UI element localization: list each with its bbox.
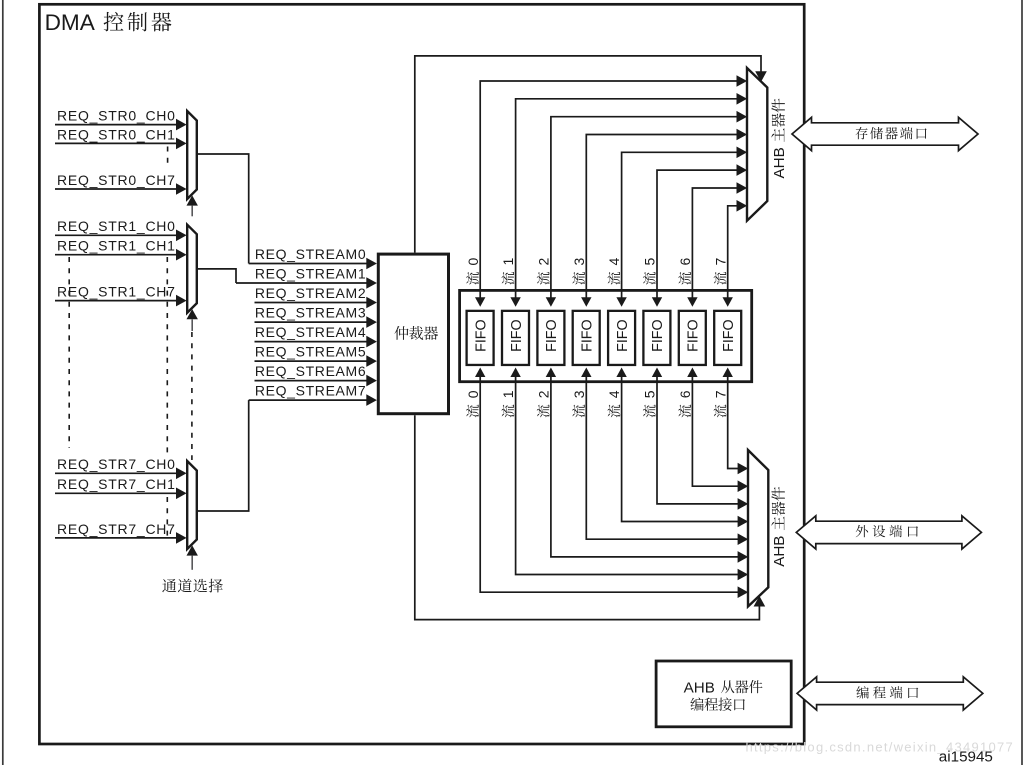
FIFO box 0: [467, 311, 494, 365]
FIFO box 5: [643, 311, 670, 365]
wire stream 2 bottom (to AHB master2): [546, 368, 749, 563]
dashed ellipsis group0: [167, 147, 169, 167]
label 通道选择: [162, 579, 223, 593]
svg-text:4: 4: [606, 390, 622, 398]
wire stream 3 bottom (to AHB master2): [581, 368, 748, 546]
label 流 0 (top): [465, 258, 481, 285]
label AHB 从器件: [684, 680, 763, 697]
svg-text:AHB: AHB: [771, 536, 788, 567]
wire stream 4 top (to AHB master1): [616, 147, 747, 307]
label 流 6 (bottom): [677, 390, 693, 417]
svg-text:ai15945: ai15945: [939, 749, 993, 765]
dashed ellipsis left (STR1..STR7): [68, 257, 70, 448]
wire arbiter to AHB master1: [415, 56, 767, 253]
svg-text:AHB: AHB: [684, 680, 715, 697]
watermark: [746, 739, 1015, 754]
wire stream 3 top (to AHB master1): [581, 129, 747, 307]
wire REQ_STR7_CH0: [55, 456, 187, 479]
FIFO box 4: [608, 311, 635, 365]
svg-text:REQ_STREAM1: REQ_STREAM1: [255, 265, 366, 281]
FIFO box 7: [714, 311, 741, 365]
wire stream 7 top (to AHB master1): [723, 200, 748, 307]
wire mux M1 output: [197, 269, 236, 283]
wire mux M7 output: [197, 400, 249, 511]
label 流 7 (top): [712, 258, 728, 285]
wire REQ_STREAM1: [236, 265, 377, 288]
port arrow 外设端口 (peripheral port): [796, 516, 981, 549]
svg-text:3: 3: [571, 258, 587, 266]
label 流 3 (bottom): [571, 390, 587, 417]
mux M0 (stream0 channel mux): [187, 111, 197, 199]
svg-text:5: 5: [642, 390, 658, 398]
title: DMA 控制器: [45, 10, 172, 35]
label 流 5 (top): [642, 258, 658, 285]
svg-text:FIFO: FIFO: [544, 319, 560, 352]
wire REQ_STR0_CH7: [55, 172, 187, 195]
wire REQ_STREAM2: [255, 285, 377, 308]
label 流 2 (bottom): [536, 390, 552, 417]
wire stream 0 top (to AHB master1): [475, 75, 747, 307]
wire stream 2 top (to AHB master1): [546, 111, 747, 307]
wire stream 7 bottom (to AHB master2): [723, 368, 749, 475]
svg-text:REQ_STREAM6: REQ_STREAM6: [255, 363, 366, 379]
label AHB 主器件 (master2): [771, 487, 788, 567]
svg-text:DMA: DMA: [45, 10, 96, 35]
label 流 2 (top): [536, 258, 552, 285]
select arrow M0: [187, 195, 198, 216]
outer box: DMA controller: [39, 4, 804, 744]
label AHB 主器件 (master1): [771, 99, 788, 179]
wire REQ_STR1_CH0: [55, 218, 187, 241]
svg-text:6: 6: [677, 258, 693, 266]
port arrow 存储器端口 (memory port): [792, 117, 978, 150]
FIFO box 1: [502, 311, 529, 365]
svg-text:REQ_STREAM5: REQ_STREAM5: [255, 344, 366, 360]
label 流 7 (bottom): [712, 390, 728, 417]
label 仲裁器: [394, 326, 438, 340]
wire REQ_STR7_CH7: [55, 521, 187, 544]
wire REQ_STREAM7: [249, 383, 377, 406]
svg-text:1: 1: [500, 258, 516, 266]
svg-text:REQ_STR0_CH7: REQ_STR0_CH7: [57, 172, 176, 188]
FIFO box 3: [573, 311, 600, 365]
wire REQ_STREAM4: [255, 324, 377, 347]
label 流 4 (bottom): [606, 390, 622, 417]
FIFO box 2: [537, 311, 564, 365]
svg-text:REQ_STREAM4: REQ_STREAM4: [255, 324, 366, 340]
svg-text:REQ_STREAM2: REQ_STREAM2: [255, 285, 366, 301]
wire REQ_STR0_CH0: [55, 108, 187, 131]
page left rule: [2, 0, 4, 765]
svg-text:REQ_STR0_CH0: REQ_STR0_CH0: [57, 108, 176, 124]
arbiter box: [378, 254, 448, 414]
wire stream 5 bottom (to AHB master2): [652, 368, 748, 510]
label 流 1 (bottom): [500, 390, 516, 417]
label 流 0 (bottom): [465, 390, 481, 417]
wire stream 6 bottom (to AHB master2): [687, 368, 748, 493]
wire REQ_STREAM0: [249, 246, 377, 269]
svg-text:REQ_STR0_CH1: REQ_STR0_CH1: [57, 126, 176, 142]
select arrow M1: [187, 309, 198, 460]
svg-text:FIFO: FIFO: [650, 319, 666, 352]
page right rule: [1021, 0, 1023, 765]
label 流 1 (top): [500, 258, 516, 285]
wire stream 5 top (to AHB master1): [652, 164, 747, 306]
label 流 6 (top): [677, 258, 693, 285]
wire stream 1 top (to AHB master1): [510, 93, 747, 307]
FIFO box 6: [679, 311, 706, 365]
svg-text:4: 4: [606, 258, 622, 266]
wire arbiter to AHB master2: [415, 415, 765, 619]
dashed ellipsis mid upper: [166, 257, 168, 456]
svg-text:2: 2: [536, 390, 552, 398]
svg-text:6: 6: [677, 390, 693, 398]
select arrow M7: [187, 545, 198, 569]
AHB master2 trapezoid: [748, 450, 768, 607]
AHB master1 trapezoid: [747, 68, 767, 221]
wire REQ_STR0_CH1: [55, 126, 187, 149]
label 编程接口: [690, 698, 745, 711]
svg-text:REQ_STR1_CH0: REQ_STR1_CH0: [57, 218, 176, 234]
svg-text:0: 0: [465, 390, 481, 398]
AHB slave programming interface box: [656, 661, 791, 727]
svg-text:FIFO: FIFO: [686, 319, 702, 352]
wire REQ_STR7_CH1: [55, 476, 187, 499]
wire stream 6 top (to AHB master1): [687, 182, 747, 307]
svg-text:REQ_STREAM7: REQ_STREAM7: [255, 383, 366, 399]
svg-text:REQ_STREAM0: REQ_STREAM0: [255, 246, 366, 262]
label 流 5 (bottom): [642, 390, 658, 417]
wire mux M0 output: [197, 154, 249, 264]
wire REQ_STREAM6: [255, 363, 377, 386]
svg-text:7: 7: [712, 390, 728, 398]
svg-text:REQ_STR1_CH7: REQ_STR1_CH7: [57, 284, 176, 300]
svg-text:3: 3: [571, 390, 587, 398]
svg-text:1: 1: [500, 390, 516, 398]
dashed ellipsis mid lower: [166, 497, 168, 536]
mux M7 (stream7 channel mux): [187, 461, 197, 549]
svg-text:REQ_STREAM3: REQ_STREAM3: [255, 305, 366, 321]
label 流 4 (top): [606, 258, 622, 285]
wire REQ_STR1_CH7: [55, 284, 187, 307]
FIFO container box: [460, 290, 752, 381]
svg-text:FIFO: FIFO: [580, 319, 596, 352]
figure id ai15945: [939, 749, 993, 766]
svg-text:REQ_STR7_CH0: REQ_STR7_CH0: [57, 456, 176, 472]
svg-text:AHB: AHB: [771, 147, 788, 178]
wire stream 4 bottom (to AHB master2): [616, 368, 748, 528]
svg-text:REQ_STR7_CH7: REQ_STR7_CH7: [57, 521, 176, 537]
wire REQ_STREAM3: [255, 305, 377, 328]
svg-text:FIFO: FIFO: [509, 319, 525, 352]
svg-text:5: 5: [642, 258, 658, 266]
wire stream 0 bottom (to AHB master2): [475, 368, 748, 599]
svg-text:REQ_STR7_CH1: REQ_STR7_CH1: [57, 476, 176, 492]
svg-text:FIFO: FIFO: [615, 319, 631, 352]
mux M1 (stream1 channel mux): [187, 225, 197, 313]
svg-text:REQ_STR1_CH1: REQ_STR1_CH1: [57, 238, 176, 254]
svg-text:FIFO: FIFO: [721, 319, 737, 352]
wire REQ_STREAM5: [255, 344, 377, 367]
wire REQ_STR1_CH1: [55, 238, 187, 261]
svg-text:0: 0: [465, 258, 481, 266]
label 流 3 (top): [571, 258, 587, 285]
wire stream 1 bottom (to AHB master2): [510, 368, 748, 581]
svg-text:7: 7: [712, 258, 728, 266]
svg-text:2: 2: [536, 258, 552, 266]
svg-text:FIFO: FIFO: [473, 319, 489, 352]
port arrow 编程端口 (programming port): [797, 677, 983, 710]
